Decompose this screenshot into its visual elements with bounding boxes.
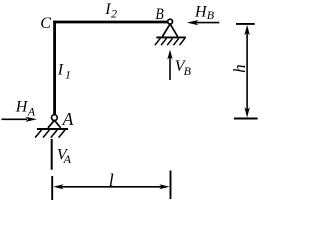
svg-text:h: h: [230, 64, 249, 73]
svg-text:B: B: [155, 6, 163, 23]
svg-text:l: l: [109, 170, 114, 190]
svg-text:B: B: [184, 64, 192, 78]
svg-text:1: 1: [65, 68, 71, 82]
svg-text:C: C: [40, 15, 51, 32]
svg-text:A: A: [62, 109, 74, 129]
svg-text:A: A: [63, 152, 72, 166]
svg-text:2: 2: [111, 7, 117, 21]
svg-text:B: B: [207, 8, 215, 22]
svg-text:A: A: [27, 105, 36, 119]
svg-text:H: H: [15, 99, 29, 116]
svg-text:I: I: [57, 61, 64, 78]
